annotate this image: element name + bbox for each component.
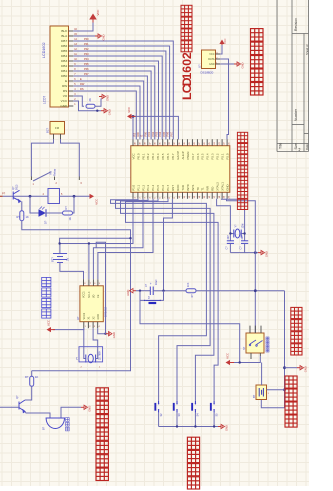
wire DATA to MCU P2.0 [220, 59, 228, 139]
title block [277, 0, 309, 152]
svg-text:P1.7: P1.7 [166, 184, 170, 190]
svg-text:GND: GND [209, 63, 215, 66]
svg-text:1K: 1K [26, 215, 29, 219]
label MCU main control [237, 199, 247, 209]
svg-text:DB5: DB5 [61, 49, 67, 53]
svg-text:P00: P00 [84, 37, 89, 41]
svg-text:P1.6: P1.6 [161, 184, 165, 190]
wire MCU to button S1 [111, 199, 207, 401]
svg-text:P01: P01 [84, 42, 89, 46]
svg-text:TXD: TXD [181, 185, 185, 191]
ground GND (power) [285, 367, 298, 369]
wire battery side stub [267, 389, 285, 391]
wire VCC to reset [140, 300, 240, 362]
svg-text:SCLK: SCLK [88, 291, 91, 298]
svg-text:LCD?: LCD? [43, 96, 47, 104]
resistor R3 (Q1 emitter) [21, 201, 23, 210]
relay K1 coil [48, 189, 60, 204]
wire MCU to button S2 [116, 199, 211, 401]
power VCC (switch) [234, 356, 260, 363]
svg-text:Date:: Date: [305, 143, 309, 150]
wire battery+ to switch [261, 363, 263, 386]
svg-text:2K: 2K [88, 98, 92, 102]
power VCC (LCD backlight) [73, 23, 93, 32]
svg-text:INT0: INT0 [186, 184, 190, 191]
svg-text:32.768K: 32.768K [99, 350, 102, 360]
svg-text:GND: GND [241, 62, 245, 68]
svg-text:BT?: BT? [51, 257, 55, 262]
transistor Q2 [19, 400, 25, 413]
svg-text:RD: RD [211, 187, 215, 191]
power VCC (DS1302 VCC2) [53, 328, 84, 329]
svg-text:WR: WR [206, 186, 210, 191]
power VCC (relay) [90, 194, 95, 199]
svg-text:DB1: DB1 [61, 69, 67, 73]
svg-text:P2.1: P2.1 [221, 153, 225, 159]
wire crystal gnd rail [230, 252, 258, 254]
svg-text:+: + [150, 282, 152, 286]
svg-text:P1.1: P1.1 [136, 184, 140, 190]
svg-text:P2.3: P2.3 [211, 153, 215, 159]
power VCC (MCU pin40/EA rail) [134, 116, 178, 139]
svg-text:FM: FM [55, 126, 60, 130]
svg-text:DB6: DB6 [61, 44, 67, 48]
wire collector rail [3, 195, 48, 197]
wire to power input gnd [261, 291, 284, 408]
svg-text:VCC: VCC [95, 199, 99, 205]
label power circuit [291, 344, 302, 355]
svg-text:GND: GND [226, 184, 230, 190]
transistor Q1 [13, 190, 20, 202]
svg-text:I/O: I/O [93, 295, 96, 298]
wires DS1302 SCLK/IO/CE to MCU P1.0/P1.2/P1.4 [89, 199, 133, 279]
ground GND (buzzer) [81, 406, 84, 408]
svg-text:P1.2: P1.2 [141, 184, 145, 190]
svg-text:P02: P02 [84, 47, 89, 51]
LCD data/control wires to MCU P0 [73, 41, 173, 140]
sensor U2 DS18B20 [202, 50, 216, 69]
svg-text:P06: P06 [84, 67, 89, 71]
ground GND (LCD pin2) [73, 101, 101, 111]
svg-text:Relay: Relay [53, 168, 57, 176]
svg-text:Sheet of: Sheet of [305, 44, 309, 55]
svg-text:B?: B? [42, 426, 46, 430]
svg-text:1K: 1K [68, 217, 72, 220]
battery BT1 3V [53, 254, 67, 263]
push button S2 [158, 401, 160, 413]
svg-text:RW: RW [62, 84, 67, 88]
label power input [285, 415, 297, 427]
label key circuit [187, 477, 199, 489]
svg-text:A4: A4 [298, 147, 302, 151]
resistor R2 1K [45, 212, 63, 214]
svg-text:GND: GND [225, 425, 229, 431]
svg-text:RST: RST [171, 185, 175, 191]
svg-text:P03: P03 [155, 131, 159, 136]
wire MCU GND trunk [227, 199, 256, 333]
wire Q1 emitter to buzzer circuit [22, 221, 131, 371]
svg-text:VCC: VCC [131, 153, 135, 159]
svg-text:Q?: Q? [15, 395, 19, 399]
switch S5 power switch [246, 333, 264, 353]
svg-text:P1.3: P1.3 [146, 184, 150, 190]
label clock module (blue) [42, 309, 51, 318]
wire button gnd rail [159, 426, 218, 428]
ground GND (DS1302) [98, 328, 106, 334]
svg-text:BZ?: BZ? [46, 127, 50, 133]
svg-text:P0.2: P0.2 [146, 153, 150, 159]
svg-text:GND: GND [265, 251, 269, 257]
svg-text:XTAL2: XTAL2 [216, 182, 220, 191]
wire buzzer to relay contacts [31, 139, 53, 177]
svg-text:9013: 9013 [16, 184, 19, 190]
push button S4 [194, 401, 196, 413]
resistor R5 10K [186, 289, 196, 293]
svg-text:10K: 10K [187, 282, 190, 287]
svg-text:VCC: VCC [96, 10, 100, 16]
svg-text:P02: P02 [151, 131, 155, 136]
svg-text:Q?: Q? [11, 186, 15, 190]
svg-text:P1.5: P1.5 [156, 184, 160, 190]
svg-text:CE: CE [97, 294, 100, 298]
LED D1 (relay indicator) [30, 196, 39, 213]
svg-text:E: E [80, 77, 82, 81]
svg-text:EA/VP: EA/VP [176, 151, 180, 160]
svg-text:P03: P03 [84, 52, 89, 56]
svg-text:2: 2 [180, 52, 194, 59]
svg-text:BLA: BLA [61, 34, 68, 38]
svg-text:P06: P06 [166, 131, 170, 136]
svg-text:P01: P01 [147, 131, 151, 136]
svg-text:Number: Number [294, 108, 298, 121]
svg-text:10uF: 10uF [155, 279, 158, 285]
buzzer B1 [25, 412, 50, 419]
svg-text:1K: 1K [35, 375, 38, 379]
svg-text:D?: D? [44, 220, 48, 224]
svg-text:T1: T1 [201, 187, 205, 191]
svg-text:P1.0: P1.0 [131, 184, 135, 190]
svg-text:RS: RS [63, 89, 67, 93]
svg-text:P2.0: P2.0 [226, 153, 230, 159]
svg-text:GND: GND [126, 290, 130, 296]
wire gnd riser [96, 242, 105, 333]
svg-text:P2.4: P2.4 [206, 153, 210, 159]
svg-text:DATA: DATA [208, 58, 215, 61]
svg-text:ALE/P: ALE/P [181, 151, 185, 159]
svg-text:T0: T0 [196, 187, 200, 191]
buzzer module BZ1 [50, 122, 65, 135]
svg-text:R?: R? [64, 206, 68, 210]
wire RST [164, 199, 173, 291]
svg-text:GND: GND [304, 366, 308, 372]
push button S5 [213, 401, 215, 413]
svg-text:VCC: VCC [61, 99, 68, 103]
wire MCU to button S3 [121, 199, 214, 401]
svg-text:S?: S? [242, 346, 246, 350]
svg-text:R?: R? [17, 215, 21, 219]
MCU U1 AT89C51 [131, 146, 230, 193]
svg-text:DS18B20: DS18B20 [201, 71, 214, 75]
ground GND (buttons) [218, 426, 221, 428]
svg-text:P2.2: P2.2 [216, 153, 220, 159]
svg-text:P07: P07 [169, 131, 173, 136]
svg-text:P04: P04 [158, 131, 162, 136]
svg-text:R?: R? [25, 375, 29, 379]
svg-text:GND: GND [108, 109, 112, 115]
svg-text:30P: 30P [227, 235, 230, 240]
capacitor C1 10uF [136, 290, 150, 292]
crystal Y2 12M [234, 229, 241, 238]
svg-text:VCC: VCC [127, 107, 131, 113]
svg-text:P0.7: P0.7 [171, 153, 175, 159]
svg-text:VCC1: VCC1 [83, 291, 86, 298]
crystal Y1 32.768K [79, 347, 103, 362]
resistor R4 (Q2 base) [31, 371, 33, 377]
svg-text:DB7: DB7 [61, 39, 67, 43]
svg-text:P0.5: P0.5 [161, 153, 165, 159]
label buzzer alarm circuit [96, 468, 108, 480]
power VCC (DS18B20) [220, 45, 222, 54]
svg-text:GND: GND [97, 314, 100, 320]
svg-text:B?: B? [252, 394, 256, 398]
svg-text:VCC: VCC [47, 320, 51, 326]
svg-text:VCC: VCC [223, 38, 227, 44]
svg-text:VO: VO [63, 94, 68, 98]
svg-text:BLK: BLK [61, 29, 68, 33]
battery holder B2 [256, 385, 267, 400]
svg-text:P2.7: P2.7 [191, 153, 195, 159]
svg-text:U?: U? [197, 64, 201, 68]
svg-text:PSEN: PSEN [186, 152, 190, 160]
svg-text:P04: P04 [84, 57, 89, 61]
wire branch to buzzer trunk [60, 238, 131, 243]
svg-text:VCC2: VCC2 [83, 312, 86, 319]
wires XTAL [217, 199, 231, 241]
ground GND (DS18B20) [220, 63, 234, 65]
svg-text:LCD1602: LCD1602 [42, 42, 46, 58]
svg-text:Revision: Revision [294, 18, 298, 31]
svg-text:30P: 30P [241, 235, 244, 240]
capacitor C3 30P [227, 241, 234, 244]
svg-text:DB2: DB2 [61, 64, 67, 68]
svg-text:DB3: DB3 [61, 59, 67, 63]
svg-text:P0.3: P0.3 [151, 153, 155, 159]
wire battery+ [60, 244, 89, 254]
ground GND (LCD pin15) [73, 35, 95, 37]
svg-text:P2.5: P2.5 [201, 153, 205, 159]
resistor R1 2K (LCD contrast) [73, 96, 84, 106]
svg-text:GND: GND [112, 332, 116, 338]
capacitor C4 30P [241, 241, 248, 244]
svg-text:RXD: RXD [176, 185, 180, 191]
svg-text:INT1: INT1 [191, 184, 195, 191]
svg-text:E: E [65, 79, 67, 83]
svg-text:GND: GND [88, 406, 92, 412]
ground GND (crystal) [258, 252, 261, 254]
ground GND (contrast) [99, 96, 102, 98]
relay K1 contacts [31, 177, 79, 181]
svg-text:GND: GND [60, 104, 68, 108]
svg-text:DB0: DB0 [61, 74, 67, 78]
net label stub (left edge) [0, 195, 3, 197]
svg-text:P05: P05 [84, 62, 89, 66]
svg-text:E: E [140, 135, 144, 137]
svg-text:P0.6: P0.6 [166, 153, 170, 159]
push button S3 [176, 401, 178, 413]
svg-text:RS: RS [80, 87, 84, 91]
svg-text:GND: GND [102, 34, 106, 40]
svg-text:P0.4: P0.4 [156, 153, 160, 159]
svg-text:XTAL1: XTAL1 [221, 182, 225, 191]
wire Q2 base (to left edge) [0, 406, 19, 408]
svg-text:P1.4: P1.4 [151, 184, 155, 190]
svg-text:U?: U? [76, 316, 80, 320]
svg-text:12M: 12M [242, 224, 245, 229]
connector LCD1 (LCD1602 interface) [50, 26, 69, 107]
svg-text:P2.6: P2.6 [196, 153, 200, 159]
svg-text:3V: 3V [66, 258, 70, 261]
svg-text:DB4: DB4 [61, 54, 67, 58]
svg-text:VCC: VCC [226, 353, 230, 359]
svg-text:RW: RW [80, 82, 85, 86]
svg-text:P00: P00 [143, 131, 147, 136]
wire battery- to DS1302 VCC1 [60, 263, 84, 280]
svg-text:VCC: VCC [209, 53, 214, 56]
IC U3 DS1302 [80, 286, 103, 322]
svg-text:P?: P? [2, 192, 6, 196]
svg-text:P05: P05 [162, 131, 166, 136]
svg-text:GND: GND [106, 95, 110, 101]
svg-text:P0.0: P0.0 [136, 153, 140, 159]
ground GND (reset) [133, 290, 136, 292]
svg-text:P07: P07 [84, 72, 89, 76]
svg-text:Title: Title [279, 143, 283, 149]
label temperature sensor [251, 83, 264, 96]
svg-text:P0.1: P0.1 [141, 153, 145, 159]
svg-text:RW: RW [136, 132, 140, 137]
reset button S1 [140, 291, 145, 301]
wire MCU to button S4 [126, 199, 219, 401]
